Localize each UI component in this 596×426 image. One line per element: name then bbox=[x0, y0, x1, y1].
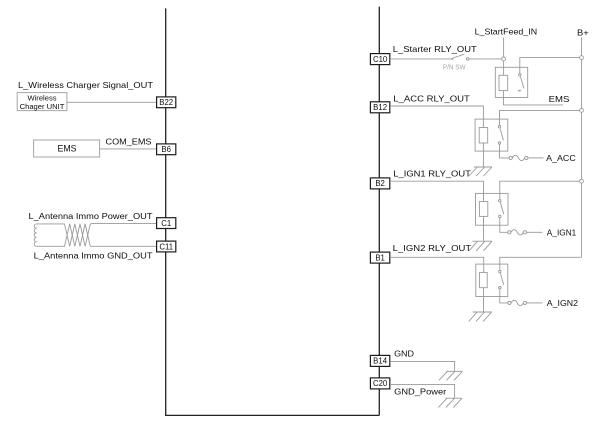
wire relay K2 switch to B+ bbox=[500, 110, 582, 125]
wire relay K2 coil to ground bbox=[482, 143, 484, 167]
wire fuse A_IGN2 to label bbox=[527, 302, 543, 304]
svg-text:COM_EMS: COM_EMS bbox=[106, 136, 153, 146]
wireless charger unit box bbox=[17, 93, 67, 111]
wire relay K2 switch to fuse A_ACC bbox=[500, 144, 510, 158]
connector C1 bbox=[157, 218, 176, 229]
wire relay K4 switch to fuse A_IGN2 bbox=[500, 289, 508, 303]
wire relay K4 switch to B+ bbox=[500, 257, 582, 270]
wire relay K3 coil to ground bbox=[483, 216, 485, 240]
wire P/N switch to StartFeed node bbox=[469, 58, 502, 60]
label L_IGN1 RLY_OUT bbox=[393, 168, 471, 178]
connector C10 bbox=[370, 54, 389, 65]
wire antenna to C1 bbox=[90, 222, 156, 225]
wire antenna to C11 bbox=[90, 245, 156, 247]
antenna coil L1 bbox=[34, 224, 90, 246]
wire B12 to relay K2 coil bbox=[390, 106, 483, 128]
svg-text:C1: C1 bbox=[161, 219, 171, 228]
wire B2 to relay K3 coil bbox=[390, 181, 484, 201]
EMS unit box bbox=[34, 140, 100, 157]
wire L_StartFeed_IN to relay K1 coil bbox=[503, 38, 505, 76]
svg-text:Chager UNIT: Chager UNIT bbox=[20, 102, 65, 111]
connector B14 bbox=[370, 355, 389, 366]
relay K1 switch bbox=[518, 74, 524, 92]
wire B14 to ground bbox=[390, 361, 455, 371]
svg-text:A_IGN1: A_IGN1 bbox=[547, 227, 577, 237]
wire relay K3 switch to fuse A_IGN1 bbox=[500, 218, 508, 233]
relay K2 ACC box bbox=[475, 119, 508, 151]
svg-text:A_IGN2: A_IGN2 bbox=[547, 298, 579, 308]
relay K1 starter box bbox=[495, 67, 527, 97]
right bus wire bbox=[378, 7, 380, 416]
svg-text:B6: B6 bbox=[161, 145, 171, 154]
svg-text:L_Starter RLY_OUT: L_Starter RLY_OUT bbox=[393, 44, 477, 54]
relay K3 switch bbox=[499, 200, 504, 218]
fuse A_IGN1 bbox=[508, 230, 527, 235]
ground G2 bbox=[469, 241, 492, 251]
label A_IGN1 bbox=[547, 227, 577, 237]
label EMS right bbox=[549, 94, 570, 104]
svg-text:L_Antenna Immo GND_OUT: L_Antenna Immo GND_OUT bbox=[34, 251, 153, 261]
left bus wire bbox=[166, 8, 380, 415]
svg-text:B1: B1 bbox=[375, 253, 385, 262]
wire C10 to P/N switch bbox=[390, 58, 452, 60]
label L_StartFeed_IN bbox=[475, 27, 538, 37]
ground G1 bbox=[469, 167, 492, 176]
fuse A_ACC bbox=[509, 155, 528, 160]
connector B1 bbox=[370, 252, 389, 263]
wire fuse A_IGN1 to label bbox=[527, 231, 543, 233]
B+ supply line bbox=[581, 38, 583, 258]
svg-text:L_Antenna Immo Power_OUT: L_Antenna Immo Power_OUT bbox=[29, 211, 153, 221]
svg-text:B2: B2 bbox=[375, 179, 385, 188]
switch P/N SW bbox=[451, 54, 469, 60]
wire wireless unit to B22 bbox=[67, 101, 157, 103]
label P/N SW bbox=[443, 63, 466, 72]
ground G3 bbox=[469, 312, 492, 321]
relay K3 coil bbox=[479, 202, 487, 217]
node junction B+ K1 bbox=[580, 56, 584, 60]
svg-text:B+: B+ bbox=[577, 28, 589, 38]
svg-text:L_IGN2 RLY_OUT: L_IGN2 RLY_OUT bbox=[393, 243, 472, 253]
svg-text:GND: GND bbox=[394, 349, 414, 359]
svg-text:A_ACC: A_ACC bbox=[546, 153, 576, 163]
wire fuse A_ACC to label bbox=[528, 157, 544, 159]
node junction StartFeed bbox=[502, 57, 506, 61]
connector B2 bbox=[370, 178, 389, 189]
svg-text:L_Wireless Charger Signal_OUT: L_Wireless Charger Signal_OUT bbox=[18, 80, 153, 90]
relay K3 IGN1 box bbox=[476, 193, 509, 225]
svg-text:C10: C10 bbox=[373, 55, 388, 64]
connector B6 bbox=[157, 144, 176, 155]
connector B22 bbox=[157, 97, 176, 108]
svg-text:GND_Power: GND_Power bbox=[394, 387, 446, 397]
relay K2 coil bbox=[479, 128, 488, 144]
wire EMS unit to B6 bbox=[100, 148, 157, 150]
svg-text:L_IGN1 RLY_OUT: L_IGN1 RLY_OUT bbox=[393, 168, 471, 178]
svg-text:L_StartFeed_IN: L_StartFeed_IN bbox=[475, 27, 538, 37]
relay K2 switch bbox=[498, 126, 503, 145]
wire B1 to relay K4 coil bbox=[390, 257, 484, 272]
label L_Starter RLY_OUT bbox=[393, 44, 477, 54]
relay K4 IGN2 box bbox=[476, 264, 508, 296]
label L_IGN2 RLY_OUT bbox=[393, 243, 472, 253]
node junction B+ K3 bbox=[580, 179, 584, 183]
wire relay K4 coil to ground bbox=[483, 288, 485, 312]
label GND_Power bbox=[394, 387, 446, 397]
label L_ACC RLY_OUT bbox=[393, 93, 470, 103]
svg-text:P/N SW: P/N SW bbox=[443, 63, 466, 72]
svg-text:C11: C11 bbox=[159, 242, 173, 251]
node junction B+ K2 bbox=[580, 109, 584, 113]
relay K4 coil bbox=[479, 272, 487, 287]
wire relay K1 coil to EMS bbox=[503, 91, 563, 105]
ground G5 bbox=[438, 398, 462, 407]
label L_Antenna Immo Power_OUT bbox=[29, 211, 153, 221]
wire C20 to ground bbox=[390, 384, 455, 397]
svg-text:B12: B12 bbox=[373, 103, 387, 112]
connector C20 bbox=[370, 378, 389, 389]
label L_Wireless Charger Signal_OUT bbox=[18, 80, 153, 90]
svg-text:B14: B14 bbox=[373, 357, 388, 366]
fuse A_IGN2 bbox=[508, 300, 527, 305]
connector B12 bbox=[370, 102, 389, 113]
label B+ bbox=[577, 28, 589, 38]
label GND bbox=[394, 349, 414, 359]
svg-text:L_ACC RLY_OUT: L_ACC RLY_OUT bbox=[393, 93, 470, 103]
label COM_EMS bbox=[106, 136, 153, 146]
label A_IGN2 bbox=[547, 298, 579, 308]
wire relay K3 switch to B+ bbox=[500, 181, 582, 199]
label L_Antenna Immo GND_OUT bbox=[34, 251, 153, 261]
ground G4 bbox=[439, 371, 463, 380]
label A_ACC bbox=[546, 153, 576, 163]
relay K4 switch bbox=[499, 270, 504, 289]
connector C11 bbox=[157, 241, 176, 252]
relay K1 coil bbox=[499, 75, 508, 90]
svg-text:EMS: EMS bbox=[549, 94, 570, 104]
wire relay K1 switch to B+ bbox=[520, 58, 582, 74]
svg-text:B22: B22 bbox=[159, 98, 173, 107]
svg-text:C20: C20 bbox=[373, 379, 388, 388]
svg-text:EMS: EMS bbox=[57, 144, 76, 154]
